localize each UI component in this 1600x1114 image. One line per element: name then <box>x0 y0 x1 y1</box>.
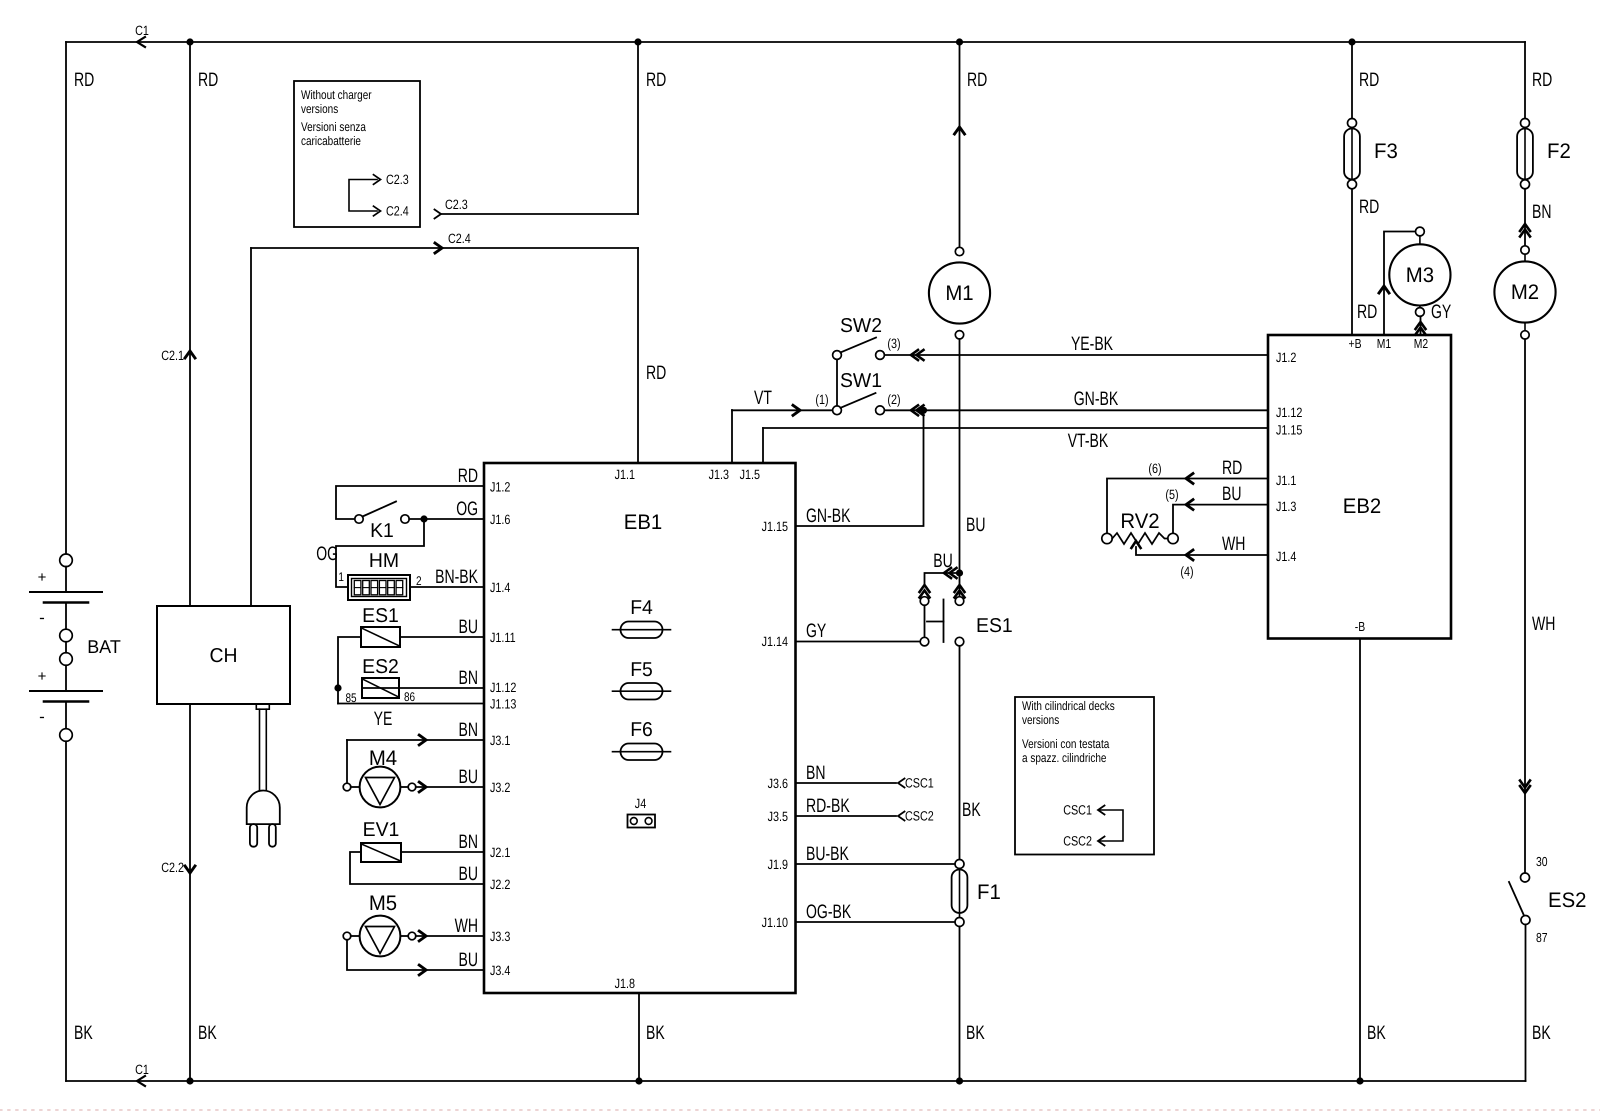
svg-text:SW2: SW2 <box>840 315 882 337</box>
svg-text:OG-BK: OG-BK <box>806 901 851 923</box>
svg-text:C2.2: C2.2 <box>161 860 184 875</box>
svg-text:OG: OG <box>316 543 338 565</box>
wire BK ES2 to bottom rail <box>1525 925 1527 1082</box>
svg-text:CSC1: CSC1 <box>905 776 934 791</box>
svg-text:J1.10: J1.10 <box>762 915 788 930</box>
wire CH column lower BK <box>189 704 191 1081</box>
svg-text:BU: BU <box>966 514 986 536</box>
junction GN-BK / EB1 J1.15 branch <box>920 407 927 414</box>
svg-text:RD: RD <box>646 69 666 91</box>
svg-text:BN: BN <box>806 762 826 784</box>
svg-text:2: 2 <box>416 574 422 588</box>
svg-text:Versioni con testata: Versioni con testata <box>1022 737 1109 751</box>
svg-text:C1: C1 <box>135 23 149 38</box>
svg-text:(1): (1) <box>815 392 828 407</box>
svg-text:RD: RD <box>646 362 666 384</box>
junction ES2 85 branch <box>334 684 341 691</box>
motor M2 <box>1521 246 1529 254</box>
svg-text:RD: RD <box>967 69 987 91</box>
svg-text:J1.14: J1.14 <box>762 634 789 649</box>
svg-text:J1.8: J1.8 <box>615 976 635 991</box>
svg-text:ES1: ES1 <box>976 615 1013 637</box>
svg-text:versions: versions <box>1022 713 1059 727</box>
fuse F2 <box>1521 119 1530 128</box>
svg-text:J1.12: J1.12 <box>1276 405 1302 420</box>
svg-text:-B: -B <box>1355 619 1365 634</box>
svg-text:CH: CH <box>210 645 238 667</box>
svg-text:M1: M1 <box>945 282 973 305</box>
svg-text:BN-BK: BN-BK <box>435 566 478 588</box>
svg-text:BU-BK: BU-BK <box>806 843 849 865</box>
svg-text:BN: BN <box>459 719 479 741</box>
svg-text:J1.1: J1.1 <box>1276 473 1296 488</box>
svg-text:Without charger: Without charger <box>301 88 372 102</box>
fuse F1 <box>955 860 964 869</box>
svg-text:C2.1: C2.1 <box>161 348 184 363</box>
svg-text:J4: J4 <box>635 796 647 811</box>
node C2.1 <box>185 351 195 358</box>
mains plug <box>256 704 269 709</box>
svg-text:F6: F6 <box>630 719 653 741</box>
node C2.2 <box>185 866 195 873</box>
svg-text:BU: BU <box>459 863 479 885</box>
svg-text:F2: F2 <box>1547 140 1571 163</box>
svg-text:BN: BN <box>459 831 479 853</box>
svg-text:M3: M3 <box>1406 264 1434 287</box>
note bracket CSC1/CSC2 jumper <box>1100 810 1123 841</box>
ECU EB1 <box>484 463 796 993</box>
svg-text:BU: BU <box>459 616 479 638</box>
svg-text:RD: RD <box>1359 69 1379 91</box>
svg-text:J1.2: J1.2 <box>1276 350 1296 365</box>
svg-text:J2.2: J2.2 <box>490 877 510 892</box>
note box: with cilindrical decks versions <box>1015 697 1154 855</box>
note box: without charger versions <box>294 81 420 227</box>
junction bottom rail / F1 column <box>956 1077 963 1084</box>
svg-text:(3): (3) <box>887 336 900 351</box>
svg-text:+: + <box>38 668 47 685</box>
svg-text:(6): (6) <box>1148 461 1161 476</box>
svg-text:BK: BK <box>1367 1022 1386 1044</box>
svg-text:GY: GY <box>806 620 826 642</box>
wire SW2-SW1 link <box>836 359 838 406</box>
motor M1 <box>955 247 963 255</box>
svg-text:J3.3: J3.3 <box>490 929 510 944</box>
svg-text:C2.3: C2.3 <box>445 197 468 212</box>
svg-text:J1.13: J1.13 <box>490 697 516 712</box>
wire WH M2 to ES2 <box>1524 339 1526 873</box>
svg-text:C2.4: C2.4 <box>386 204 409 219</box>
svg-text:With cilindrical decks: With cilindrical decks <box>1022 699 1115 713</box>
svg-text:1: 1 <box>338 570 344 584</box>
svg-text:+B: +B <box>1349 336 1362 351</box>
svg-text:HM: HM <box>369 550 399 572</box>
svg-text:F4: F4 <box>630 597 653 619</box>
svg-text:J1.11: J1.11 <box>490 630 516 645</box>
svg-text:C1: C1 <box>135 1062 149 1077</box>
svg-text:J3.6: J3.6 <box>768 776 788 791</box>
svg-text:caricabatterie: caricabatterie <box>301 134 361 148</box>
svg-text:BK: BK <box>966 1022 985 1044</box>
svg-text:OG: OG <box>456 498 478 520</box>
svg-text:RD: RD <box>1359 196 1379 218</box>
svg-text:+: + <box>38 569 47 586</box>
svg-text:BK: BK <box>74 1022 93 1044</box>
svg-text:RD: RD <box>1222 457 1242 479</box>
svg-text:BK: BK <box>1532 1022 1551 1044</box>
svg-text:a spazz. cilindriche: a spazz. cilindriche <box>1022 751 1107 765</box>
wire M1 column RD from top rail <box>959 42 961 247</box>
svg-text:BU: BU <box>459 949 479 971</box>
svg-text:J2.1: J2.1 <box>490 845 510 860</box>
svg-text:EV1: EV1 <box>363 819 400 841</box>
svg-text:BAT: BAT <box>87 636 121 657</box>
svg-text:BU: BU <box>459 766 479 788</box>
svg-text:J3.5: J3.5 <box>768 809 788 824</box>
svg-text:BK: BK <box>198 1022 217 1044</box>
fuse F3 <box>1348 180 1357 189</box>
svg-text:F5: F5 <box>630 659 653 681</box>
svg-text:-: - <box>39 608 45 627</box>
ECU EB2 <box>1268 335 1451 639</box>
svg-text:BK: BK <box>646 1022 665 1044</box>
svg-text:WH: WH <box>1532 613 1555 635</box>
svg-text:C2.3: C2.3 <box>386 172 409 187</box>
svg-text:BN: BN <box>1532 201 1552 223</box>
svg-text:M2: M2 <box>1511 281 1539 304</box>
note bracket C2.3/C2.4 jumper <box>349 180 377 212</box>
svg-text:YE-BK: YE-BK <box>1071 333 1113 355</box>
svg-text:YE: YE <box>374 708 393 730</box>
svg-text:J3.2: J3.2 <box>490 780 510 795</box>
svg-text:VT: VT <box>754 387 772 409</box>
junction ES1 branch <box>956 569 963 576</box>
svg-text:J1.6: J1.6 <box>490 512 510 527</box>
svg-text:86: 86 <box>404 690 415 704</box>
svg-text:J1.15: J1.15 <box>1276 423 1302 438</box>
svg-text:J1.2: J1.2 <box>490 480 510 495</box>
wire top rail RD <box>66 41 1525 43</box>
svg-text:WH: WH <box>455 915 478 937</box>
wire GN-BK SW1 to EB2 J1.12 <box>884 409 1268 411</box>
junction top rail / C2.3 column <box>634 38 641 45</box>
svg-text:J1.3: J1.3 <box>709 467 729 482</box>
svg-text:C2.4: C2.4 <box>448 231 471 246</box>
svg-text:(5): (5) <box>1165 487 1178 502</box>
motor M3 <box>1416 227 1425 236</box>
wire C2.3 column upper RD <box>637 42 639 214</box>
wire ES1/ES2 left link <box>338 637 361 704</box>
svg-text:J1.12: J1.12 <box>490 680 516 695</box>
charger CH <box>157 606 290 704</box>
svg-text:RD: RD <box>198 69 218 91</box>
svg-text:-: - <box>39 707 45 726</box>
svg-text:J3.4: J3.4 <box>490 963 511 978</box>
svg-text:BU: BU <box>933 550 953 572</box>
junction top rail / CH column <box>186 38 193 45</box>
wire BK ES1 to F1 <box>959 646 961 860</box>
junction top rail / M1 column <box>956 38 963 45</box>
svg-text:RV2: RV2 <box>1120 510 1159 533</box>
svg-text:F3: F3 <box>1374 140 1398 163</box>
wire bottom rail BK <box>66 1080 1526 1082</box>
svg-text:BN: BN <box>459 667 479 689</box>
wire OG K1 to HM pin 1 <box>336 519 424 587</box>
svg-text:RD: RD <box>74 69 94 91</box>
page footer dotted rule <box>0 1109 1600 1111</box>
svg-text:J1.15: J1.15 <box>762 519 788 534</box>
battery BAT <box>60 554 73 567</box>
wire BU branch to ES1 contact <box>925 573 960 584</box>
junction top rail / F3 column <box>1348 38 1355 45</box>
wire M1 to ES1 junction BU <box>959 339 961 597</box>
svg-text:CSC1: CSC1 <box>1063 803 1092 818</box>
wire left rail lower BK <box>65 741 67 1081</box>
svg-text:Versioni senza: Versioni senza <box>301 120 366 134</box>
svg-text:ES1: ES1 <box>362 605 399 627</box>
junction K1 / HM branch <box>420 515 427 522</box>
svg-text:J1.3: J1.3 <box>1276 499 1296 514</box>
node C1 (bottom) <box>137 1076 145 1086</box>
pressure switch ES1 <box>920 585 930 592</box>
svg-text:J1.4: J1.4 <box>1276 549 1297 564</box>
svg-text:J1.9: J1.9 <box>768 857 788 872</box>
svg-text:SW1: SW1 <box>840 370 882 392</box>
wire C2.4 from charger to EB1 J1.1 <box>250 248 252 606</box>
svg-text:RD: RD <box>1357 301 1377 323</box>
wire C2.3 to top rail <box>435 210 442 219</box>
svg-text:J3.1: J3.1 <box>490 733 510 748</box>
svg-text:87: 87 <box>1536 930 1548 945</box>
wire BN F2 to M2 <box>1524 189 1526 246</box>
svg-text:J1.5: J1.5 <box>740 467 760 482</box>
svg-text:J1.4: J1.4 <box>490 580 511 595</box>
wire CH column upper RD <box>189 42 191 606</box>
svg-text:J1.1: J1.1 <box>615 467 635 482</box>
svg-text:CSC2: CSC2 <box>905 809 934 824</box>
svg-text:VT-BK: VT-BK <box>1068 430 1109 452</box>
svg-text:GY: GY <box>1431 301 1451 323</box>
svg-text:CSC2: CSC2 <box>1063 834 1092 849</box>
svg-text:RD: RD <box>458 465 478 487</box>
svg-text:K1: K1 <box>370 520 394 542</box>
svg-text:RD: RD <box>1532 69 1552 91</box>
switch K1 <box>355 515 363 523</box>
svg-text:BU: BU <box>1222 483 1242 505</box>
pin EB1 J1.3 (top) <box>731 410 733 463</box>
junction bottom rail / CH column <box>186 1077 193 1084</box>
junction bottom rail / EB1 J1.8 <box>635 1077 642 1084</box>
svg-text:BK: BK <box>962 799 981 821</box>
wire right rail RD <box>1524 42 1526 119</box>
wire VT from EB1 J1.3 to SW1 (1) <box>732 409 833 411</box>
wire VT-BK from EB1 J1.5 to EB2 J1.15 <box>763 427 1268 429</box>
svg-text:M1: M1 <box>1377 336 1391 351</box>
svg-text:30: 30 <box>1536 854 1548 869</box>
svg-text:(4): (4) <box>1180 564 1193 579</box>
junction bottom rail / EB2 -B <box>1356 1077 1363 1084</box>
node C1 (top) <box>137 37 145 47</box>
wire left rail upper RD <box>65 42 67 554</box>
svg-text:GN-BK: GN-BK <box>1074 388 1119 410</box>
svg-text:M2: M2 <box>1414 336 1428 351</box>
svg-text:versions: versions <box>301 102 338 116</box>
svg-text:ES2: ES2 <box>362 656 399 678</box>
svg-text:(2): (2) <box>887 392 900 407</box>
svg-text:M5: M5 <box>369 892 397 915</box>
svg-text:EB2: EB2 <box>1343 495 1382 518</box>
svg-text:EB1: EB1 <box>624 511 663 534</box>
pin EB1 J1.5 (top) <box>762 428 764 463</box>
svg-text:F1: F1 <box>977 881 1001 904</box>
svg-text:ES2: ES2 <box>1548 889 1587 912</box>
svg-text:WH: WH <box>1222 533 1245 555</box>
wire BK F1 to bottom rail <box>959 927 961 1082</box>
wire YE-BK SW2 to EB2 J1.2 <box>884 354 1268 356</box>
svg-text:GN-BK: GN-BK <box>806 505 851 527</box>
svg-text:RD-BK: RD-BK <box>806 795 850 817</box>
